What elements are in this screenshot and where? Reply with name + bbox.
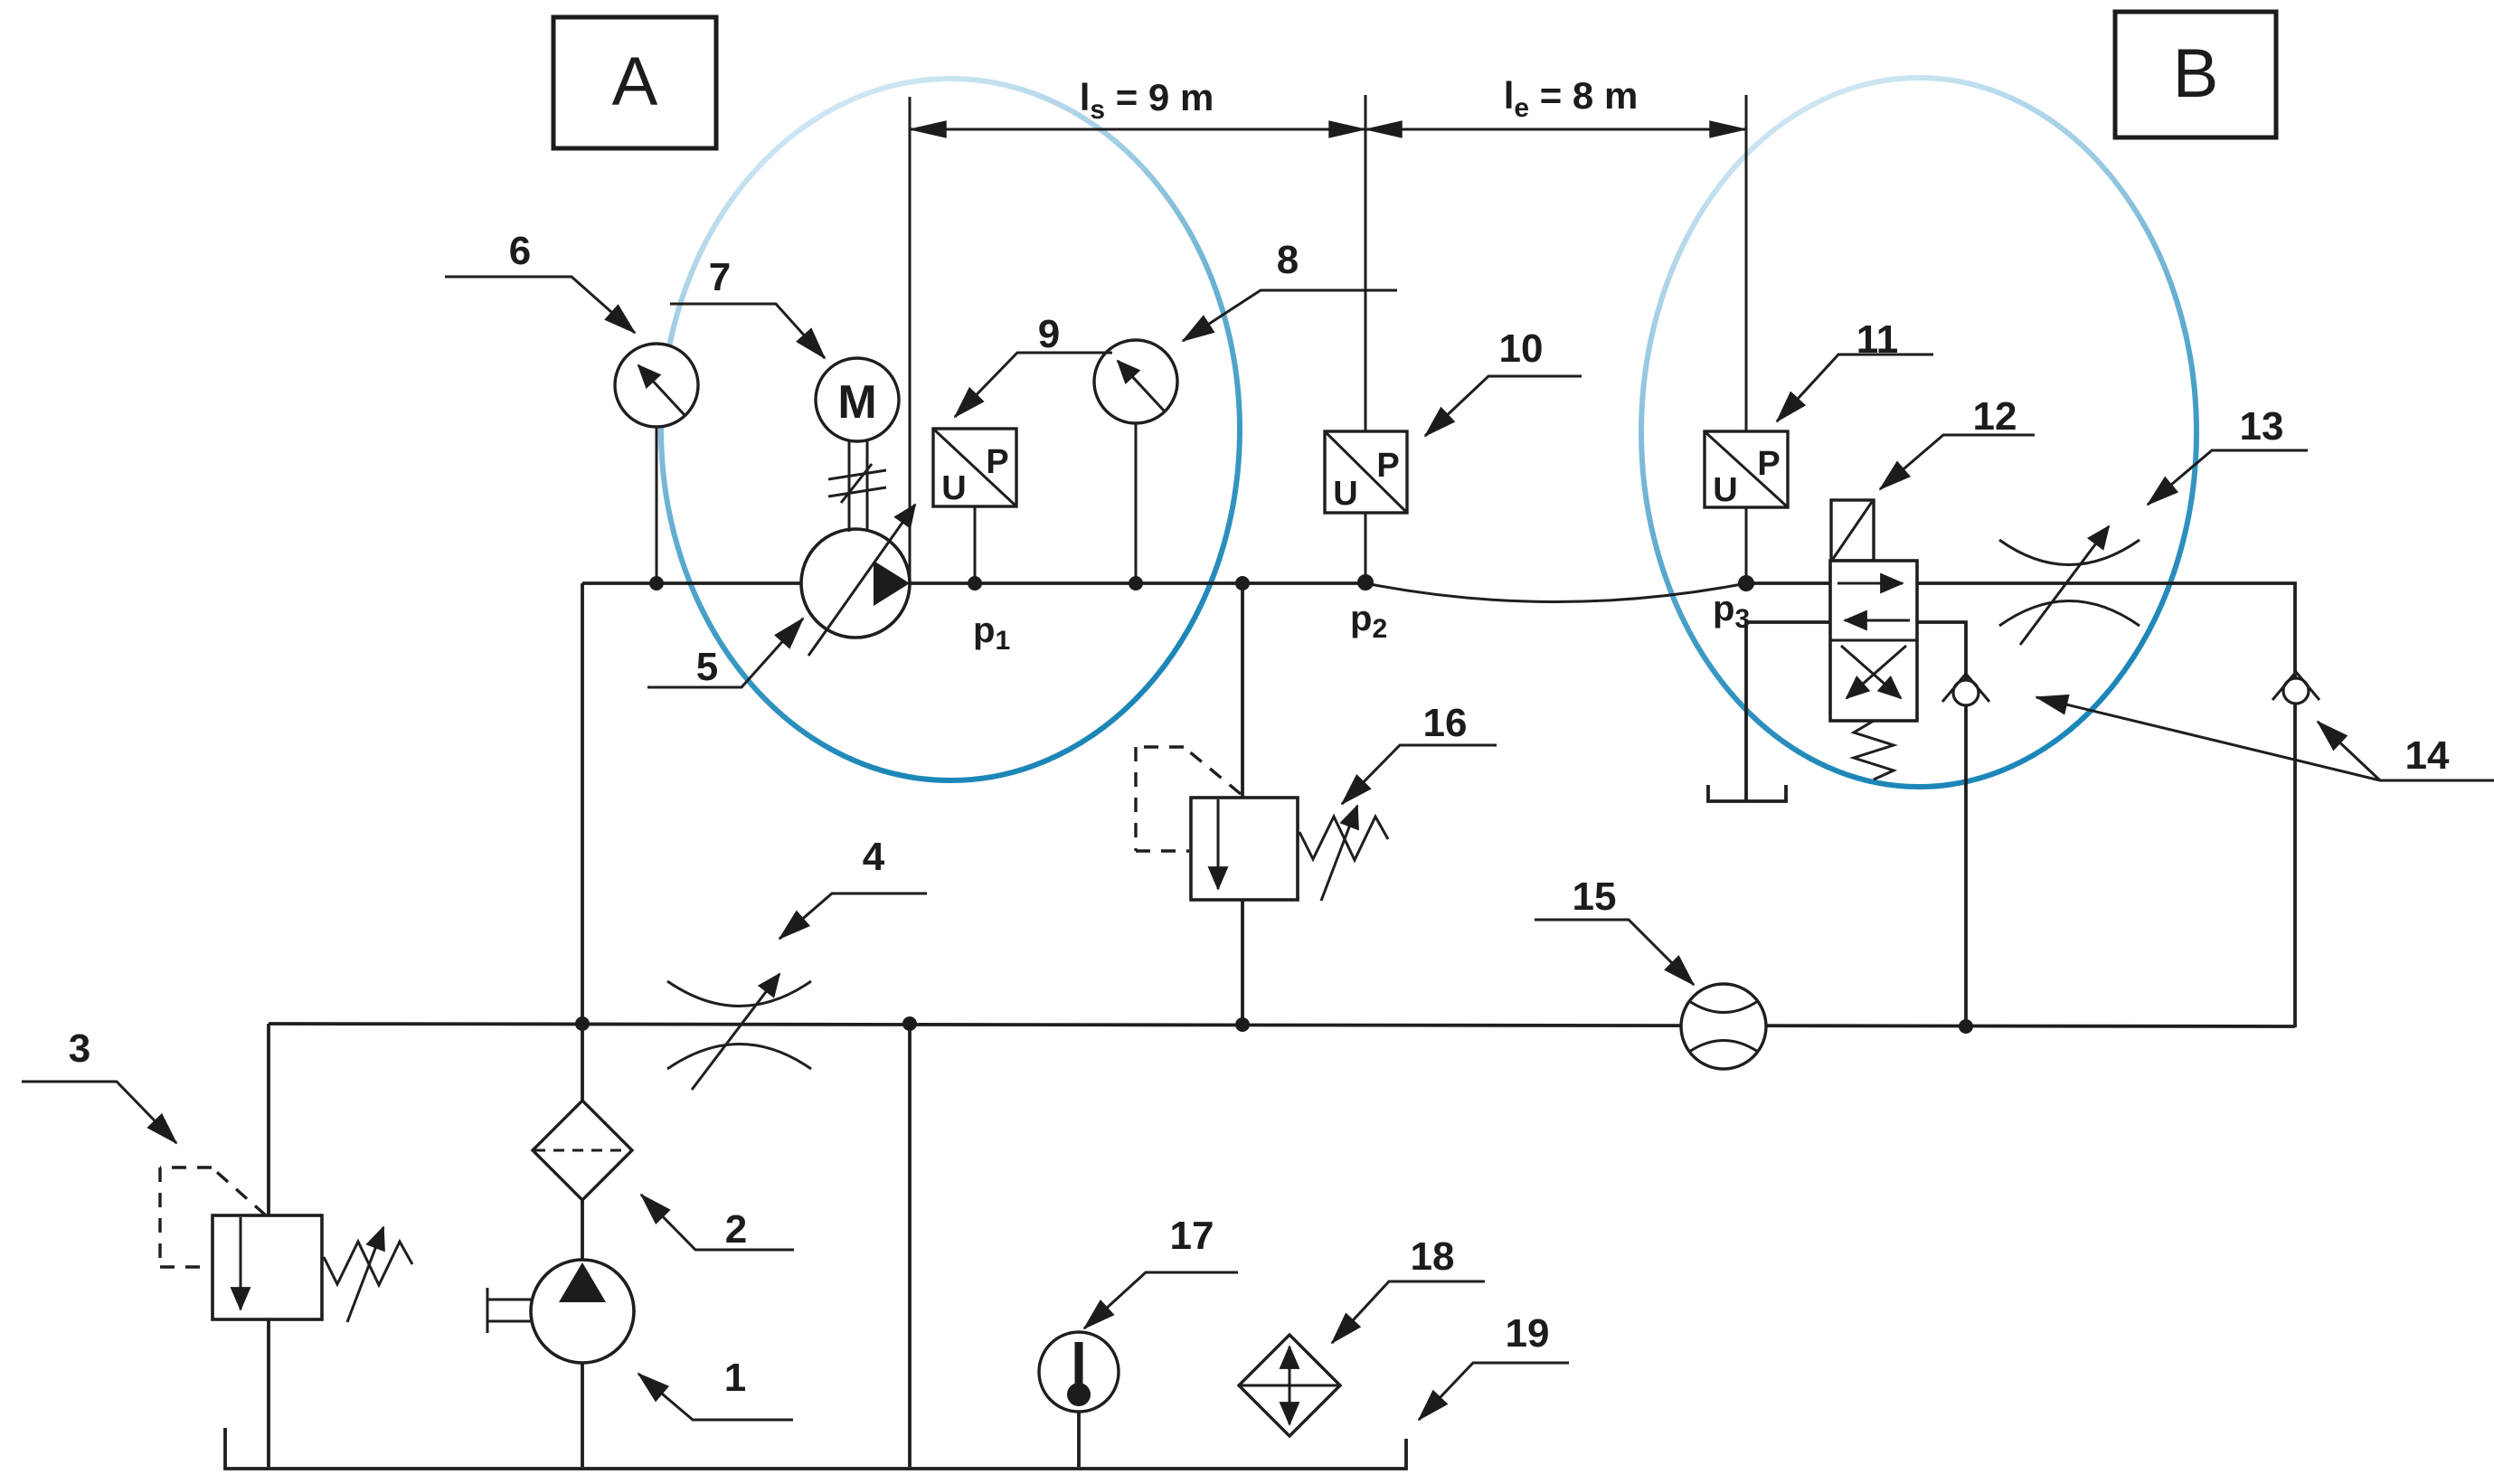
solenoid directional valve 12 xyxy=(1830,500,1917,780)
junction left riser / return xyxy=(575,1016,590,1031)
svg-text:P: P xyxy=(1757,445,1780,483)
node p3 xyxy=(1713,575,1754,634)
svg-text:U: U xyxy=(1333,475,1357,513)
junction at relief valve 16 top xyxy=(1235,576,1250,591)
wire: p2 riser through transducer 10 xyxy=(1365,95,1367,583)
wire: p3 through valve to right corner and down xyxy=(1746,583,2295,1027)
pressure transducer 11 (U/P box) xyxy=(1705,431,1788,509)
relief valve 3 xyxy=(160,1167,412,1322)
electric motor 7 xyxy=(816,358,899,441)
wire: left riser from main line to return line xyxy=(581,583,584,1024)
leader 13 xyxy=(2148,404,2308,505)
svg-text:1: 1 xyxy=(724,1356,746,1400)
label box A xyxy=(553,17,716,148)
svg-text:14: 14 xyxy=(2405,733,2450,778)
svg-text:B: B xyxy=(2173,35,2219,112)
leader 14 xyxy=(2036,697,2494,780)
variable pump 5 xyxy=(801,505,915,656)
junction at gauge 6 xyxy=(649,576,664,591)
leader 4 xyxy=(779,835,927,939)
leader 3 xyxy=(22,1026,176,1143)
pressure transducer 9 (U/P box) xyxy=(933,429,1016,507)
leader 12 xyxy=(1880,394,2035,489)
wire: relief valve 16 branch xyxy=(1241,583,1244,1025)
throttle valve 13 (variable restrictor) xyxy=(1999,526,2140,645)
check valve 14 right xyxy=(2272,672,2319,704)
junction at gauge 8 xyxy=(1129,576,1143,591)
leader 17 xyxy=(1084,1214,1238,1328)
thermometer 17 xyxy=(1039,1332,1119,1412)
svg-text:17: 17 xyxy=(1170,1214,1214,1258)
dimension line ls = 9 m xyxy=(910,76,1365,129)
svg-text:9: 9 xyxy=(1038,312,1060,356)
dimension line le = 8 m xyxy=(1365,74,1746,129)
tank 19 xyxy=(225,1428,1406,1469)
leader 9 xyxy=(955,312,1112,417)
wire: gauge 8 link xyxy=(1135,389,1138,583)
node p2 xyxy=(1350,574,1387,644)
svg-text:4: 4 xyxy=(863,835,885,879)
wire: suction line tank-pump-filter-return junction xyxy=(581,1024,584,1467)
wire: return line xyxy=(269,1024,2295,1026)
leader 8 xyxy=(1183,238,1397,341)
svg-text:6: 6 xyxy=(509,229,531,273)
svg-text:15: 15 xyxy=(1573,874,1617,919)
electric motor 7 shaft with break xyxy=(828,441,886,532)
wire: main pressure line from corner to p2 xyxy=(582,581,1365,585)
svg-text:5: 5 xyxy=(696,645,718,689)
svg-text:7: 7 xyxy=(709,255,731,299)
leader 15 xyxy=(1535,874,1694,985)
node p1 xyxy=(968,576,1010,656)
filter 2 xyxy=(533,1101,632,1200)
leader 5 xyxy=(647,619,803,689)
svg-text:P: P xyxy=(986,443,1008,481)
svg-text:A: A xyxy=(612,43,658,120)
svg-text:16: 16 xyxy=(1423,701,1468,745)
leader 2 xyxy=(641,1195,794,1252)
relief valve 16 xyxy=(1136,747,1388,901)
svg-text:P: P xyxy=(1376,447,1399,485)
pressure gauge 8 xyxy=(1094,340,1177,423)
wire: thermometer drop xyxy=(1077,1408,1081,1467)
ellipse highlight zone B xyxy=(1641,78,2196,787)
svg-text:10: 10 xyxy=(1499,326,1544,371)
svg-text:U: U xyxy=(1713,471,1737,509)
leader 6 xyxy=(445,229,635,333)
svg-text:8: 8 xyxy=(1277,238,1299,282)
wire: transducer 9 link xyxy=(974,506,977,583)
wire: return line left end down to relief valve 3 xyxy=(267,1024,270,1215)
pump 1 (fixed displacement) xyxy=(487,1260,634,1363)
wire: p3 riser through transducer 11 xyxy=(1745,95,1748,583)
leader 19 xyxy=(1419,1311,1569,1420)
wire: valve lower port line xyxy=(1746,622,1966,1025)
junction return / check valve line xyxy=(1959,1019,1973,1034)
svg-text:13: 13 xyxy=(2240,404,2284,449)
leader 1 xyxy=(638,1356,793,1420)
tank symbol at valve 12 xyxy=(1708,785,1786,801)
junction return / x1006 drop xyxy=(902,1016,917,1031)
wire: drop from return line to tank at x1006 xyxy=(908,1024,912,1467)
junction return / relief valve 16 drain xyxy=(1235,1017,1250,1032)
wire: hose from p2 to p3 xyxy=(1365,583,1746,602)
svg-text:12: 12 xyxy=(1973,394,2017,439)
wire: relief valve 3 drain to tank xyxy=(267,1319,270,1467)
ellipse highlight zone A xyxy=(661,79,1240,780)
wire: gauge 6 link xyxy=(656,389,658,583)
pressure transducer 10 (U/P box) xyxy=(1325,431,1407,513)
leader 11 xyxy=(1777,317,1933,421)
svg-text:19: 19 xyxy=(1506,1311,1550,1356)
svg-text:18: 18 xyxy=(1411,1234,1455,1279)
flow meter 15 xyxy=(1681,984,1766,1069)
svg-text:2: 2 xyxy=(725,1207,747,1252)
check valve 14 left xyxy=(1942,674,1989,705)
level indicator 18 xyxy=(1239,1335,1340,1436)
leader 10 xyxy=(1425,326,1582,436)
pressure gauge 6 xyxy=(615,344,698,427)
extension line at pump outlet (ls left) xyxy=(909,97,912,583)
label box B xyxy=(2115,12,2276,137)
svg-text:3: 3 xyxy=(69,1026,90,1071)
svg-text:U: U xyxy=(941,469,966,507)
leader 18 xyxy=(1332,1234,1485,1343)
leader 16 xyxy=(1342,701,1497,804)
svg-text:M: M xyxy=(837,376,876,429)
leader 7 xyxy=(670,255,825,358)
throttle valve 4 (variable restrictor) xyxy=(667,974,811,1090)
